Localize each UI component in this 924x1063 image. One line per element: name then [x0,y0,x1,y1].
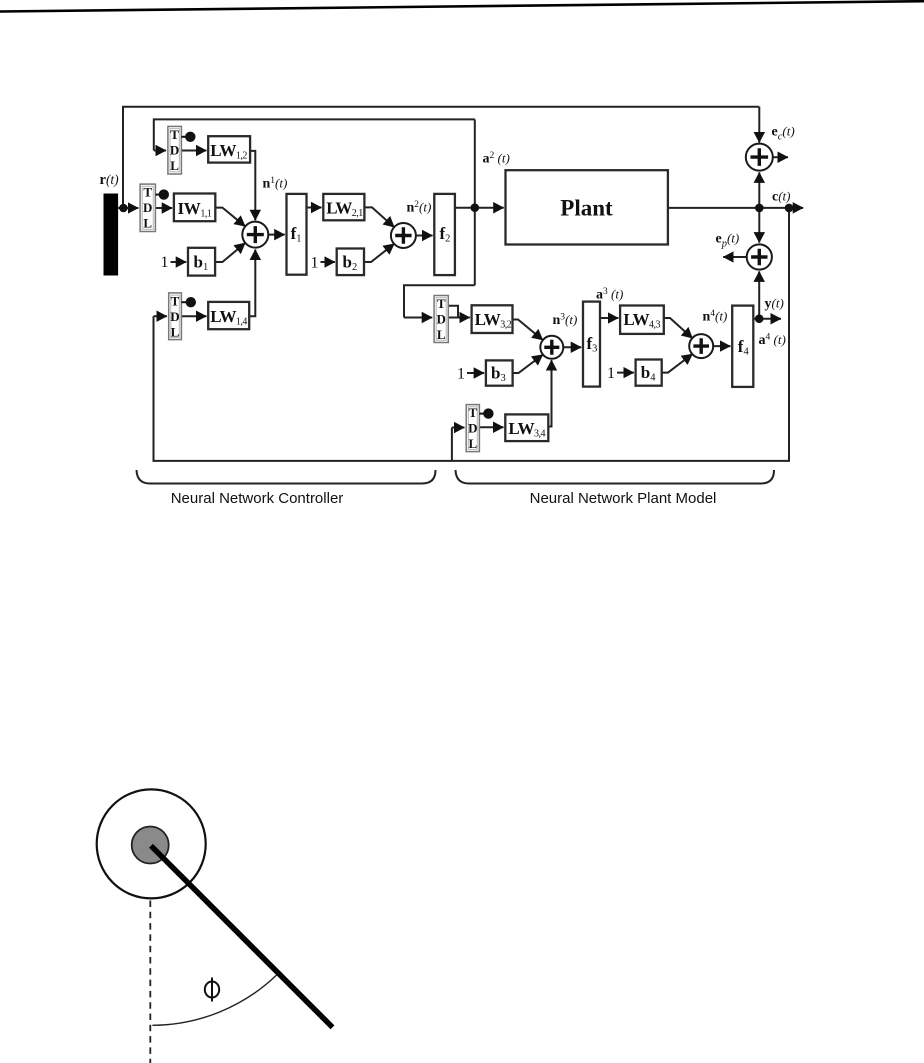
wire TDL4 to LW14 [181,315,206,317]
block b4 [636,360,662,386]
pendulum outer circle [97,789,206,898]
svg-text:Plant: Plant [560,196,613,221]
svg-text:L: L [143,216,152,231]
wire b4 diagonal to sum4 [662,354,693,373]
wire TDL2 to IW [155,207,172,209]
svg-text:n4(t): n4(t) [703,309,728,325]
svg-text:n2(t): n2(t) [407,200,432,216]
svg-text:1: 1 [607,365,615,382]
stub TDL1 dot [181,136,186,138]
block b2 [337,249,364,276]
svg-text:r(t): r(t) [100,172,120,188]
SECTION: TDL dots and stubs [155,133,492,418]
block f1 [287,194,307,275]
wire sum4 to f4 [713,345,730,347]
svg-text:T: T [468,405,477,420]
wire c(t) feedback right column and bottom run [154,208,790,461]
block LW3,2 [472,305,513,333]
sum S2 [391,223,416,248]
wire a2 node into Plant [475,207,504,209]
wire f1 to LW21 [307,207,322,209]
svg-text:T: T [170,127,179,142]
wire b1 out diagonal to sum1 [215,243,245,262]
node c junction right [785,204,794,213]
block Plant [506,170,668,244]
brace controller [137,470,436,484]
stub TDL5 dot [479,413,484,415]
block b3 [486,360,513,385]
sum S3 [540,336,563,359]
block IW1,1 [174,194,215,222]
wire sum3 to f3 [563,346,581,348]
svg-text:L: L [171,324,180,339]
r(t) input bar [104,194,119,276]
svg-text:ep(t): ep(t) [716,231,740,250]
SECTION: junction dots [119,203,793,323]
wire f2 out to a2 node [455,207,475,209]
block TDL3 [434,296,448,343]
SECTION: TDL blocks [140,126,479,451]
wire arrow into TDL5 [452,427,465,429]
plus S3 [544,340,559,355]
wire up into ec sum bottom [758,172,760,208]
wire sum2 to f2 [416,235,433,237]
svg-text:n3(t): n3(t) [553,312,578,328]
pendulum angle arc [152,975,276,1025]
wire ep sum output left [723,256,746,258]
page top rule [0,1,924,11]
wire b3 diagonal to sum3 [513,355,543,373]
node c junction left [755,204,764,213]
SECTION: wires [118,107,803,461]
brace plant model [456,470,775,484]
wire down into ep sum top [758,208,760,243]
sum EC [746,144,773,171]
wire a2 feedback vertical [474,119,476,285]
svg-text:T: T [143,185,152,200]
block LW4,3 [620,306,664,334]
svg-text:1: 1 [311,255,319,272]
wire TDL1 to LW12 [181,150,206,152]
wire outer loop into ec sum [758,107,760,143]
wire LW34 up into sum3 bottom [548,360,551,426]
block f2 [434,194,455,275]
svg-text:Neural Network Controller: Neural Network Controller [171,490,344,507]
wire Plant output c(t) [668,207,803,209]
block TDL4 [169,293,182,340]
wire 1 into b4 [617,372,634,374]
stub TDL2 dot [155,194,159,196]
wire IW out diagonal to sum1 [215,208,245,227]
wire branch up into TDL5 [451,428,453,461]
svg-text:1: 1 [457,366,465,383]
plus S1 [247,226,264,243]
wire arrow into TDL1 [154,150,166,152]
wire a2 feedback top to TDL1 [154,119,475,150]
svg-text:L: L [170,158,179,173]
block b1 [188,248,215,276]
svg-text:T: T [437,296,446,311]
wire 1 into b3 [467,372,484,374]
block TDL1 [168,126,182,174]
wire 1 into b1 [171,261,187,263]
SECTION: blocks [174,136,753,441]
block LW3,4 [505,414,548,441]
wire a2 feedback bottom [404,285,475,317]
svg-text:n1(t): n1(t) [263,176,288,192]
svg-text:T: T [171,293,180,308]
block LW1,2 [208,136,250,162]
svg-text:c(t): c(t) [772,189,791,205]
plus EP [751,249,767,265]
wire arrow into TDL3 [404,317,432,319]
pendulum dashed reference line [149,901,151,1063]
wire LW21 diagonal to sum2 [364,207,394,227]
block f4 [732,306,753,387]
plus EC [751,148,769,166]
plus S4 [693,338,709,354]
wire f4 out a4 [753,318,781,320]
svg-text:D: D [170,309,179,324]
block f3 [583,302,600,387]
pendulum hub [132,827,169,864]
wire TDL5 to LW34 [479,426,503,428]
svg-text:1: 1 [161,254,169,271]
svg-text:a3 (t): a3 (t) [596,287,623,303]
wire TDL3 to LW32 [448,317,470,319]
block TDL5 [466,405,479,452]
svg-text:ec(t): ec(t) [772,124,795,143]
svg-text:L: L [437,327,446,342]
node r(t) junction [119,204,128,213]
block TDL2 [140,184,155,231]
label phi [205,982,219,998]
block LW1,4 [208,302,249,329]
wire y(t) up into ep sum bottom [758,271,760,318]
plus S2 [395,227,411,243]
wire b2 diagonal to sum2 [364,244,394,262]
wire LW32 diagonal to sum3 [513,320,543,341]
SECTION: sum junctions [242,144,773,359]
svg-text:a4 (t): a4 (t) [759,332,786,348]
wire LW12 down into sum1 top [250,151,255,220]
svg-text:a2 (t): a2 (t) [483,151,510,167]
node a4 junction [755,314,764,323]
wire 1 into b2 [321,261,335,263]
node a2 junction [471,203,480,212]
svg-text:D: D [143,200,152,215]
svg-text:D: D [468,421,477,436]
svg-text:y(t): y(t) [765,296,784,312]
svg-text:Neural Network Plant Model: Neural Network Plant Model [530,490,717,507]
wire ec sum output [773,156,788,158]
sum S1 [242,222,268,248]
wire outer loop left vertical [123,107,759,208]
pendulum rod [151,846,333,1028]
wire LW43 diagonal to sum4 [664,318,693,338]
block LW2,1 [323,194,364,220]
svg-text:D: D [437,312,446,327]
wire TDL3 notch [448,306,458,318]
wire LW14 up into sum1 bottom [249,250,255,317]
wire arrow into TDL4 [154,315,167,317]
stub TDL4 dot [181,301,186,303]
wire sum1 to f1 [268,234,284,236]
sum S4 [689,334,713,358]
svg-text:L: L [468,436,477,451]
wire f3 to LW43 [600,317,618,319]
svg-text:D: D [170,142,179,157]
wire r(t) into TDL2 [118,207,138,209]
sum EP [747,244,772,269]
